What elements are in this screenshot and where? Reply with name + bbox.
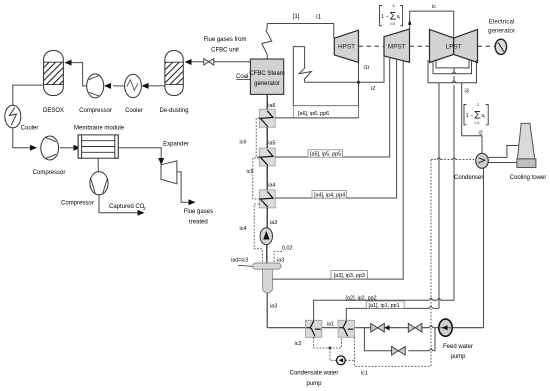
label iad=ic3 with tap line — [231, 258, 253, 267]
deaerator header (capsule) — [253, 263, 281, 269]
heater ia4 — [259, 182, 275, 208]
svg-text:generator: generator — [254, 81, 280, 87]
electrical generator — [488, 19, 515, 55]
feed water pump — [439, 319, 473, 360]
CFBC steam generator box — [249, 59, 284, 94]
label box a6 extraction — [293, 106, 358, 118]
svg-text:[a4], ip4, pp4: [a4], ip4, pp4 — [314, 193, 345, 199]
deaerator storage tank — [263, 269, 273, 293]
vessel De-dusting — [159, 51, 188, 114]
formula [1-sum(3..6) ai] above MPST — [380, 4, 403, 26]
svg-text:Compressor: Compressor — [61, 200, 94, 206]
compressor 3 (CO2 train) — [33, 136, 66, 176]
svg-text:Captured CO: Captured CO — [109, 204, 145, 210]
svg-text:[a5], ip5, pp5: [a5], ip5, pp5 — [310, 152, 341, 158]
drain ic4 (dashed) — [240, 204, 263, 263]
svg-text:pump: pump — [306, 381, 322, 387]
svg-text:De-dusting: De-dusting — [159, 108, 188, 114]
svg-text:ic2: ic2 — [295, 341, 302, 347]
svg-text:ia4: ia4 — [268, 182, 275, 188]
shaft (dashed) HPST-MPST-LPST-generator — [359, 45, 496, 47]
svg-text:6: 6 — [393, 4, 395, 8]
wire feedwater column through heaters to boiler — [266, 94, 268, 227]
svg-text:ia3: ia3 — [270, 220, 277, 226]
svg-text:treated: treated — [189, 220, 208, 226]
membrane module — [74, 126, 125, 159]
svg-text:[a2], ip2, pp2: [a2], ip2, pp2 — [346, 296, 377, 302]
heater ia5 — [259, 141, 275, 167]
label Coal with feed line — [236, 74, 250, 80]
svg-text:1 −: 1 − — [466, 113, 474, 119]
svg-text:i1r: i1r — [364, 65, 370, 71]
wire valve to de-dusting with arrow — [185, 59, 204, 65]
svg-text:ia3: ia3 — [270, 304, 277, 310]
turbine MPST — [384, 29, 410, 62]
svg-text:[a1], ip1, pp1: [a1], ip1, pp1 — [369, 303, 400, 309]
heater ia1 — [327, 320, 355, 337]
drain ic6 (dashed) — [240, 118, 260, 157]
svg-text:i1: i1 — [316, 15, 321, 21]
svg-text:Cooling tower: Cooling tower — [510, 175, 547, 181]
LPST exhaust hood outer — [428, 60, 477, 83]
booster pump ia3 — [260, 220, 277, 245]
wire expander to flue gases treated with arrow — [177, 172, 213, 226]
svg-text:[a3], ip3, pp3: [a3], ip3, pp3 — [334, 273, 365, 279]
svg-text:LPST: LPST — [446, 44, 462, 51]
dashed circuit ic1 (ia1 to condenser) — [354, 337, 431, 376]
wire a3 extraction line deaerator to MPST — [273, 61, 404, 279]
wire LPST exhaust i3 to condenser — [462, 83, 482, 154]
svg-text:Flue gases from: Flue gases from — [203, 37, 246, 43]
svg-text:[1]: [1] — [293, 14, 300, 20]
boiler main steam zigzag — [262, 24, 272, 60]
wire LPST exhaust drop to a2 line — [452, 68, 456, 300]
turbine HPST — [334, 30, 358, 62]
svg-text:Membrane module: Membrane module — [74, 126, 125, 132]
dashed drain ic2 to ia1 — [314, 337, 342, 348]
svg-text:Σ: Σ — [474, 110, 481, 122]
svg-text:Flue gases: Flue gases — [184, 209, 213, 215]
label 0,02 with dashed tap — [274, 246, 292, 264]
valve (flue gas inlet) — [204, 59, 214, 65]
wire cooler to compressor with arrow — [104, 83, 125, 89]
wire compressor to DESOX with arrow — [65, 60, 87, 86]
wire a6 extraction line to heater ia6 — [275, 117, 358, 119]
cooling tower — [510, 123, 547, 181]
svg-text:DESOX: DESOX — [43, 108, 64, 114]
wire condenser condensate drop to feed line — [483, 168, 485, 328]
condenser — [454, 153, 488, 181]
dashed riser to condenser level — [430, 160, 432, 367]
hop of main line over dashed ic1 — [429, 325, 433, 327]
heater ic2 — [295, 320, 322, 347]
svg-text:Condenser: Condenser — [454, 175, 483, 181]
LPST exhaust hood inner — [436, 60, 469, 68]
wire deaerator tank down to condensate line — [267, 293, 277, 328]
wire cooling tower to condenser (return) — [488, 162, 517, 164]
wire membrane module to expander with arrow — [118, 148, 164, 165]
svg-text:iad=ic3: iad=ic3 — [231, 258, 248, 264]
dashed line junction to condensate water pump — [330, 348, 355, 360]
svg-text:i2: i2 — [371, 86, 375, 92]
wire a5 extraction line MPST to heater ia5 — [275, 58, 390, 158]
cooler 2 (CO2 train) — [5, 105, 39, 131]
wire condenser to cooling tower (supply) — [488, 146, 518, 158]
svg-text:i3: i3 — [465, 89, 469, 95]
svg-text:Σ: Σ — [390, 11, 397, 23]
expander — [161, 142, 189, 184]
svg-text:ia6: ia6 — [268, 103, 275, 109]
reheater loop with zigzag — [293, 47, 358, 106]
wire de-dusting to cooler with arrow — [142, 83, 165, 89]
svg-text:i2: i2 — [479, 131, 483, 137]
svg-text:i=1: i=1 — [475, 121, 480, 125]
svg-text:HPST: HPST — [338, 44, 355, 51]
svg-text:ic6: ic6 — [240, 140, 247, 146]
svg-text:Compressor: Compressor — [33, 170, 66, 176]
svg-text:i=3: i=3 — [390, 22, 395, 26]
bypass line with valve V3 — [364, 328, 435, 355]
svg-text:Cooler: Cooler — [125, 108, 143, 114]
svg-text:ic1: ic1 — [361, 371, 368, 377]
svg-text:ic: ic — [432, 4, 436, 10]
svg-text:ia1: ia1 — [327, 322, 334, 328]
svg-text:ia5: ia5 — [268, 141, 275, 147]
wire a2 extraction line LPST to heater ic2 — [314, 296, 454, 321]
condensate water pump — [290, 356, 346, 387]
svg-text:Compressor: Compressor — [79, 108, 112, 114]
svg-text:[a6], ip6, pp6: [a6], ip6, pp6 — [298, 111, 329, 117]
wire compressor 4 to captured CO2 with arrow — [99, 195, 146, 216]
svg-text:2: 2 — [477, 103, 479, 107]
compressor (flue gas, top) — [79, 74, 112, 114]
svg-text:CFBC unit: CFBC unit — [211, 48, 239, 54]
wire DESOX to cooler 2 — [13, 85, 44, 105]
turbine LPST (double flow) — [430, 29, 478, 62]
svg-text:ic5: ic5 — [247, 169, 254, 175]
svg-text:1 −: 1 − — [381, 14, 389, 20]
formula [1-sum(1..2) ai] near condenser — [464, 103, 488, 137]
valve V1 on condensate line — [371, 323, 390, 332]
wire booster pump to deaerator — [266, 245, 268, 263]
LPST exhaust hood middle — [433, 61, 472, 74]
wire hot reheat i2 to MPST — [305, 56, 384, 92]
wire a1 extraction line LPST to heater ia1 — [346, 301, 439, 320]
wire a4 extraction line MPST to heater ia4 — [275, 59, 396, 198]
svg-text:ic4: ic4 — [240, 226, 247, 232]
compressor 4 (captured CO2) — [61, 172, 108, 207]
svg-text:Expander: Expander — [163, 142, 189, 148]
wire main steam line [1] to HPST — [267, 14, 334, 38]
wire compressor 3 to membrane module with arrow — [60, 145, 81, 151]
cooler (flue gas, top) — [125, 74, 143, 114]
svg-text:pump: pump — [450, 354, 466, 360]
svg-text:Feed water: Feed water — [443, 344, 473, 350]
wire membrane module to compressor 4 — [97, 158, 99, 172]
wire valve to CFBC box — [214, 61, 251, 63]
valve V2 on condensate line — [408, 323, 422, 332]
svg-text:Electrical: Electrical — [489, 19, 515, 26]
svg-text:0,02: 0,02 — [282, 246, 293, 252]
vessel DESOX — [43, 51, 64, 114]
drain ic5 (dashed) — [247, 158, 260, 199]
node junction on reheat line — [357, 81, 360, 84]
svg-text:Condensate water: Condensate water — [290, 371, 339, 377]
wire HPST exhaust (i1r) down to reheater branch — [359, 62, 370, 118]
svg-text:CFBC Steam: CFBC Steam — [249, 71, 284, 77]
label Flue gases from CFBC unit — [203, 37, 246, 54]
wire condensate main line — [267, 327, 483, 329]
node drain junction — [328, 347, 331, 350]
dashed horizontal to condenser with hops — [431, 157, 476, 159]
wire ic extraction MPST to LPST — [408, 4, 454, 38]
svg-text:generator: generator — [488, 28, 515, 35]
svg-text:MPST: MPST — [388, 43, 406, 50]
wire LPST exhaust drop to a1 line — [438, 83, 440, 309]
svg-text:Cooler: Cooler — [21, 126, 39, 132]
wire cooler 2 to compressor 3 with arrow — [13, 128, 37, 151]
heater ia6 — [259, 103, 275, 127]
